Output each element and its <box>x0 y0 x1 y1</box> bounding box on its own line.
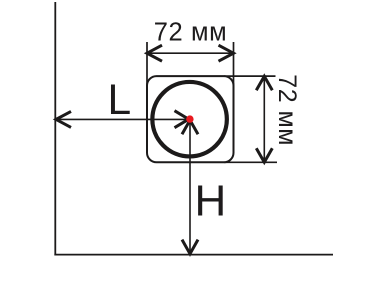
svg-text:H: H <box>195 177 227 226</box>
svg-text:L: L <box>108 77 132 124</box>
svg-text:72 мм: 72 мм <box>154 19 228 47</box>
svg-text:72 мм: 72 мм <box>273 74 301 146</box>
